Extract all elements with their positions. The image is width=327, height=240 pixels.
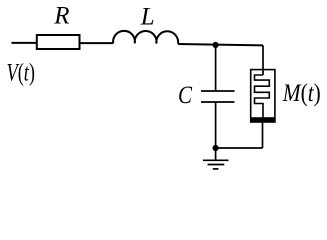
svg-text:L: L xyxy=(140,3,155,30)
memristor M1 bottom electrode bar xyxy=(250,117,276,122)
svg-text:R: R xyxy=(53,3,69,30)
inductor L1 xyxy=(113,31,178,44)
svg-text:M(t): M(t) xyxy=(282,80,321,107)
memristor M1 meander xyxy=(255,75,270,117)
wire: resistor to inductor xyxy=(80,42,114,44)
wire: ground stub xyxy=(215,148,217,160)
wire: left terminal to resistor xyxy=(12,42,37,44)
ground xyxy=(203,159,229,161)
wire: capacitor to bottom junction xyxy=(215,102,217,148)
capacitor C1 bottom plate xyxy=(201,101,235,103)
resistor R1 xyxy=(37,35,80,49)
wire: junction down to capacitor xyxy=(215,45,217,91)
wire: memristor top lead xyxy=(262,45,264,75)
svg-text:V(t): V(t) xyxy=(7,60,36,87)
node: bottom junction dot xyxy=(213,145,219,151)
svg-text:C: C xyxy=(178,82,192,109)
capacitor C1 top plate xyxy=(201,90,235,92)
wire: memristor bottom lead xyxy=(262,121,264,148)
node: top junction dot xyxy=(213,42,219,48)
memristor M1 box xyxy=(251,70,275,122)
wire: bottom junction to memristor lead xyxy=(216,147,263,149)
wire: inductor to memristor branch corner xyxy=(178,44,263,45)
